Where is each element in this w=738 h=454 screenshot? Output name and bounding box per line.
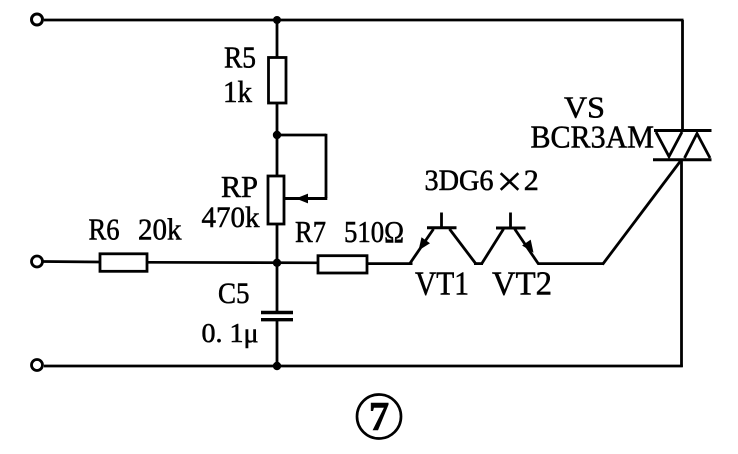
node junction RP top bbox=[273, 131, 281, 139]
svg-text:470k: 470k bbox=[202, 201, 260, 234]
svg-text:C5: C5 bbox=[218, 277, 250, 310]
transistor VT2 bbox=[482, 213, 539, 265]
label C5 bbox=[218, 277, 250, 310]
svg-text:BCR3AM: BCR3AM bbox=[531, 119, 655, 155]
wire right vertical upper bbox=[681, 20, 684, 131]
resistor R7 bbox=[318, 256, 367, 273]
figure number 7 bbox=[357, 393, 401, 439]
svg-text:1k: 1k bbox=[223, 74, 252, 109]
wire right vertical lower bbox=[680, 160, 683, 367]
wire R7 to VT1 bbox=[367, 262, 413, 265]
terminal bottom-left bbox=[32, 360, 43, 371]
svg-text:VT2: VT2 bbox=[492, 266, 552, 303]
transistor VT1 bbox=[410, 213, 477, 265]
svg-text:R6: R6 bbox=[89, 212, 120, 247]
wiper arrow of RP bbox=[296, 194, 308, 204]
label C5 value 0.1u bbox=[202, 317, 259, 348]
svg-text:3DG6: 3DG6 bbox=[425, 164, 494, 197]
resistor R5 bbox=[269, 58, 287, 104]
label RP bbox=[221, 169, 258, 204]
terminal top-left bbox=[32, 14, 43, 25]
svg-text:RP: RP bbox=[221, 169, 258, 204]
wire triac gate lead bbox=[603, 161, 681, 265]
wire R5 top lead bbox=[276, 20, 279, 58]
label 3DG6x2 bbox=[425, 164, 539, 197]
label R6 value 20k bbox=[89, 212, 182, 247]
label R5 value 1k bbox=[223, 74, 252, 109]
triac VS bbox=[653, 131, 712, 160]
svg-text:7: 7 bbox=[369, 393, 390, 439]
svg-text:2: 2 bbox=[524, 164, 539, 197]
svg-text:510Ω: 510Ω bbox=[344, 214, 404, 249]
wire VT2 emitter horizontal bbox=[538, 262, 604, 265]
svg-text:R7: R7 bbox=[295, 214, 326, 249]
label VS type BCR3AM bbox=[531, 119, 655, 155]
wire RP feedback loop top bbox=[277, 134, 326, 137]
wire RP feedback loop right bbox=[325, 134, 328, 198]
resistor R6 bbox=[100, 254, 147, 271]
wire mid between R6 and junction bbox=[147, 261, 318, 264]
wire RP bottom lead bbox=[276, 224, 279, 263]
node junction mid bbox=[273, 259, 281, 267]
node junction top (R5 branch) bbox=[273, 16, 281, 24]
label R7 value 510ohm bbox=[295, 214, 404, 249]
wire R5 bottom lead bbox=[276, 103, 279, 176]
node junction bottom (C5) bbox=[273, 362, 281, 370]
label R5 bbox=[224, 40, 256, 75]
wire top horizontal bbox=[44, 19, 684, 22]
wire bottom horizontal bbox=[44, 365, 683, 368]
svg-text:20k: 20k bbox=[138, 212, 182, 247]
label VS bbox=[564, 90, 605, 125]
svg-text:0. 1μ: 0. 1μ bbox=[202, 317, 259, 348]
label VT1 bbox=[415, 266, 469, 303]
label VT2 bbox=[492, 266, 552, 303]
capacitor C5 bbox=[261, 263, 293, 366]
potentiometer RP bbox=[268, 176, 284, 224]
terminal mid-left bbox=[32, 256, 43, 267]
label RP value 470k bbox=[202, 201, 260, 234]
wire RP wiper lead bbox=[284, 197, 327, 200]
wire mid-left lead bbox=[43, 260, 100, 263]
svg-text:VT1: VT1 bbox=[415, 266, 469, 303]
svg-text:R5: R5 bbox=[224, 40, 256, 75]
wire between VT1 and VT2 bbox=[474, 262, 483, 265]
